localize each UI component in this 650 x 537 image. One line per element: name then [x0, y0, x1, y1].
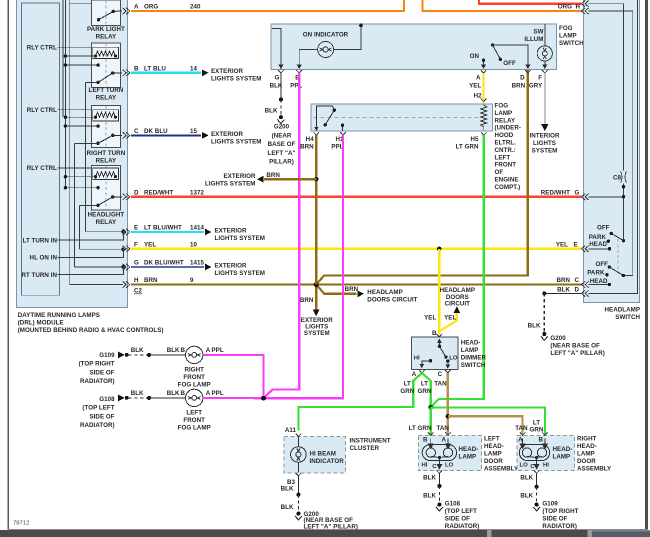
- svg-text:H2: H2: [474, 93, 483, 100]
- svg-text:GRN: GRN: [400, 388, 414, 395]
- wire F GRY down to interior lights: [544, 73, 546, 124]
- svg-text:YEL: YEL: [444, 314, 456, 321]
- svg-text:RADIATOR): RADIATOR): [80, 422, 115, 429]
- svg-text:CIRCUIT: CIRCUIT: [445, 300, 471, 307]
- svg-text:1414: 1414: [190, 225, 204, 232]
- DRL pin B connector chevrons: [123, 70, 127, 76]
- wire E LT BLU/WHT 1414: [131, 231, 204, 233]
- svg-text:F: F: [538, 75, 542, 82]
- svg-text:SIDE OF: SIDE OF: [445, 515, 470, 522]
- svg-text:(UNDER-: (UNDER-: [495, 125, 521, 132]
- svg-text:B: B: [539, 437, 544, 444]
- svg-text:10: 10: [190, 241, 197, 248]
- svg-text:HI: HI: [414, 355, 420, 361]
- wire A YEL down to fog relay H2: [482, 73, 484, 104]
- svg-text:BRN: BRN: [144, 277, 158, 284]
- svg-text:ASSEMBLY: ASSEMBLY: [484, 465, 519, 472]
- fog relay switch: [314, 106, 344, 131]
- svg-text:G200: G200: [550, 335, 566, 342]
- wire LT GRN junction to right headlamp B: [431, 407, 545, 436]
- svg-text:PPL: PPL: [290, 83, 302, 90]
- svg-text:TAN: TAN: [434, 381, 447, 388]
- right door pin mark C: [534, 470, 540, 473]
- svg-text:HEAD-: HEAD-: [577, 443, 597, 450]
- connector C8: [621, 172, 622, 183]
- wire B LT BLU 14: [131, 72, 201, 74]
- dimmer pin marks A C: [419, 370, 425, 373]
- svg-text:FRONT: FRONT: [183, 417, 205, 424]
- svg-text:H5: H5: [470, 136, 479, 143]
- svg-text:ILLUM: ILLUM: [524, 36, 543, 43]
- wire TAN junction to right headlamp A: [448, 416, 523, 436]
- pin F internal wire: [80, 248, 123, 250]
- right headlamp door assembly box: [517, 435, 575, 470]
- right door pin marks A B: [520, 432, 526, 435]
- wire B PPL down from fog switch: [264, 73, 300, 398]
- svg-text:(TOP RIGHT: (TOP RIGHT: [79, 361, 115, 368]
- svg-text:LAMP: LAMP: [459, 454, 477, 461]
- svg-text:FOG LAMP: FOG LAMP: [178, 382, 211, 389]
- svg-text:G: G: [134, 260, 139, 267]
- svg-text:BLK: BLK: [167, 390, 180, 397]
- svg-text:PARK: PARK: [589, 234, 607, 241]
- svg-text:CLUSTER: CLUSTER: [350, 445, 380, 452]
- svg-text:HI: HI: [543, 462, 549, 468]
- svg-text:CNTR.:: CNTR.:: [495, 147, 516, 154]
- svg-text:SIDE OF: SIDE OF: [89, 369, 114, 376]
- svg-text:BRN: BRN: [300, 144, 314, 151]
- svg-text:LEFT "A" PILLAR): LEFT "A" PILLAR): [550, 350, 604, 357]
- svg-text:ASSEMBLY: ASSEMBLY: [577, 465, 612, 472]
- svg-text:ORG: ORG: [558, 4, 572, 11]
- wire BRN down to exterior lights system: [315, 285, 317, 310]
- svg-text:LAMP: LAMP: [461, 347, 479, 354]
- internal bus wire v1: [62, 0, 64, 117]
- right turn coil feed wires: [65, 117, 98, 126]
- svg-text:15: 15: [190, 128, 197, 135]
- instrument cluster box: [284, 437, 346, 473]
- svg-text:OFF: OFF: [503, 60, 516, 67]
- arrow to exterior lights (B): [202, 69, 209, 76]
- ground G108 (left headlamp): [437, 503, 441, 507]
- svg-text:BRN: BRN: [266, 172, 280, 179]
- right turn relay coil: [93, 110, 119, 121]
- svg-text:G: G: [275, 75, 280, 82]
- svg-text:FRONT: FRONT: [495, 162, 517, 169]
- svg-text:HEADLAMP: HEADLAMP: [440, 287, 475, 294]
- svg-text:(NEAR BASE OF: (NEAR BASE OF: [550, 343, 600, 350]
- svg-text:B: B: [134, 65, 139, 72]
- svg-text:FOG: FOG: [559, 25, 573, 32]
- svg-text:(TOP RIGHT: (TOP RIGHT: [542, 508, 578, 515]
- dimmer pin mark B: [436, 334, 442, 337]
- internal line from RED top to switch1 pivot: [589, 0, 638, 293]
- cluster pin mark A11: [296, 434, 302, 437]
- svg-text:RELAY: RELAY: [96, 157, 117, 164]
- svg-text:9: 9: [190, 277, 194, 284]
- DRL pin C connector chevrons: [123, 132, 127, 138]
- hi beam indicator lamp: [291, 437, 307, 473]
- wire LT GRN right path from dimmer A: [422, 373, 431, 408]
- fog switch lever: [491, 43, 494, 46]
- wire sw illum to F pin: [544, 61, 546, 66]
- DRL inner connector box: [22, 3, 60, 295]
- svg-text:RELAY: RELAY: [495, 117, 516, 124]
- node on left fog lamp BLK: [147, 396, 151, 400]
- svg-text:C: C: [134, 128, 139, 135]
- svg-text:14: 14: [190, 65, 197, 72]
- left headlamp door assembly box: [419, 435, 482, 470]
- page bottom border: [8, 529, 649, 530]
- svg-text:HEAD-: HEAD-: [484, 443, 504, 450]
- svg-text:HEAD-: HEAD-: [553, 446, 573, 453]
- svg-text:LEFT TURN: LEFT TURN: [88, 87, 123, 94]
- svg-text:E: E: [134, 225, 138, 232]
- svg-text:ON: ON: [470, 53, 480, 60]
- svg-text:PPL: PPL: [212, 347, 224, 354]
- svg-text:RELAY: RELAY: [96, 33, 117, 40]
- svg-text:(TOP LEFT: (TOP LEFT: [82, 405, 114, 412]
- fog relay coil: [481, 104, 487, 130]
- svg-text:RT TURN IN: RT TURN IN: [21, 272, 57, 279]
- svg-text:C: C: [575, 277, 580, 284]
- pin marks fog switch: [278, 70, 547, 73]
- svg-text:DK BLU: DK BLU: [144, 128, 168, 135]
- bottom bar middle segment: [492, 530, 588, 537]
- wire from indicator to panel top: [334, 25, 361, 50]
- svg-text:DOOR: DOOR: [577, 458, 596, 465]
- svg-text:LT BLU/WHT: LT BLU/WHT: [144, 225, 182, 232]
- internal line BLK D up right side: [589, 0, 638, 293]
- relay K3 right turn relay box: [92, 106, 121, 148]
- svg-text:LAMP: LAMP: [495, 110, 513, 117]
- DRL pin A connector chevrons: [123, 8, 130, 288]
- svg-text:RLY CTRL: RLY CTRL: [27, 44, 57, 51]
- wire sw illum to panel top: [544, 24, 546, 46]
- svg-text:G109: G109: [99, 352, 115, 359]
- svg-text:H: H: [134, 277, 139, 284]
- svg-text:D: D: [575, 287, 580, 294]
- svg-text:RLY CTRL: RLY CTRL: [27, 107, 57, 114]
- DRL pin D connector chevrons: [123, 194, 127, 200]
- dimmer lever: [438, 345, 442, 349]
- svg-text:LO: LO: [449, 355, 458, 361]
- internal bus wire v2: [64, 0, 66, 188]
- wire H4 BRN down: [315, 135, 317, 284]
- relay K4 headlight relay box: [92, 166, 121, 211]
- bottom bar right segment: [592, 530, 650, 537]
- svg-text:OFF: OFF: [595, 261, 608, 268]
- node YEL junction on F wire: [437, 247, 441, 251]
- svg-text:YEL: YEL: [556, 241, 568, 248]
- svg-text:BLK: BLK: [423, 493, 436, 500]
- fog lamp switch panel: [271, 24, 557, 69]
- svg-text:1372: 1372: [190, 189, 204, 196]
- svg-text:HEADLIGHT: HEADLIGHT: [88, 212, 125, 219]
- svg-text:HEADLAMP: HEADLAMP: [367, 289, 402, 296]
- svg-text:(NEAR: (NEAR: [272, 132, 292, 139]
- relay K2 left turn relay box: [92, 43, 121, 87]
- svg-text:BLK: BLK: [423, 474, 436, 481]
- cluster pin mark B3: [296, 473, 302, 476]
- lamp right front fog lamp: [186, 346, 203, 363]
- svg-text:HI: HI: [422, 462, 428, 468]
- svg-text:INSTRUMENT: INSTRUMENT: [350, 438, 391, 445]
- ground G109 (right headlamp): [535, 503, 539, 507]
- svg-text:LEFT: LEFT: [484, 435, 500, 442]
- svg-text:SWITCH: SWITCH: [559, 40, 584, 47]
- svg-text:SYSTEM: SYSTEM: [532, 148, 558, 155]
- wire from B pin to indicator: [299, 50, 317, 70]
- svg-text:LEFT: LEFT: [186, 410, 202, 417]
- svg-text:RELAY: RELAY: [96, 95, 117, 102]
- left turn switch feed: [86, 81, 99, 83]
- wire BLK B left fog lamp: [149, 397, 186, 399]
- node BRN at y179: [314, 177, 318, 181]
- internal line BRN C to HEAD2: [589, 284, 610, 286]
- ground G200 (headlamp switch): [542, 332, 546, 336]
- left door pin marks B A: [428, 432, 434, 435]
- wire BRN branch to exterior lights arrow: [264, 178, 316, 180]
- svg-text:B: B: [423, 437, 428, 444]
- wire YEL down to dimmer B: [438, 249, 440, 334]
- svg-text:HEAD: HEAD: [590, 278, 608, 285]
- svg-text:OF: OF: [495, 169, 504, 176]
- park relay feed wire: [70, 3, 99, 20]
- svg-text:G: G: [575, 189, 580, 196]
- DRL pin G connector chevrons: [123, 264, 127, 270]
- headlight relay coil: [93, 168, 119, 179]
- svg-text:YEL: YEL: [424, 314, 436, 321]
- svg-text:(MOUNTED BEHIND RADIO & HVAC C: (MOUNTED BEHIND RADIO & HVAC CONTROLS): [18, 327, 164, 334]
- svg-text:RIGHT: RIGHT: [577, 435, 597, 442]
- svg-text:G108: G108: [99, 396, 115, 403]
- svg-text:(TOP LEFT: (TOP LEFT: [445, 508, 477, 515]
- svg-text:F: F: [134, 241, 138, 248]
- svg-text:EXTERIOR: EXTERIOR: [223, 173, 256, 180]
- fog lamp relay box: [311, 104, 492, 131]
- bottom bar left segment: [0, 530, 487, 537]
- svg-text:LO: LO: [445, 462, 454, 468]
- svg-text:PARK: PARK: [587, 269, 605, 276]
- svg-text:PPL: PPL: [331, 144, 343, 151]
- wire BRN fork upper to fog lamp switch D: [316, 70, 528, 285]
- fog relay dashed centerline: [314, 116, 480, 118]
- svg-text:GRY: GRY: [529, 83, 543, 90]
- svg-text:RADIATOR): RADIATOR): [542, 523, 577, 530]
- svg-text:BLK: BLK: [528, 323, 541, 330]
- svg-text:A: A: [134, 4, 139, 11]
- svg-text:LT BLU: LT BLU: [144, 65, 166, 72]
- svg-text:G200: G200: [274, 124, 290, 131]
- svg-text:HEAD-: HEAD-: [461, 339, 481, 346]
- svg-text:LT: LT: [404, 381, 411, 388]
- svg-text:C8: C8: [613, 174, 622, 181]
- wire from G pin up and left: [272, 28, 281, 69]
- wire LT GRN left path from dimmer A: [298, 373, 422, 430]
- svg-text:A11: A11: [285, 427, 297, 434]
- right turn switch feed: [75, 142, 98, 144]
- svg-text:ENGINE: ENGINE: [495, 177, 519, 184]
- bottom bar separator 2: [588, 530, 593, 537]
- svg-text:B: B: [432, 330, 437, 337]
- svg-text:GRN: GRN: [418, 388, 432, 395]
- svg-text:D: D: [134, 189, 139, 196]
- svg-text:FRONT: FRONT: [183, 374, 205, 381]
- svg-text:C: C: [438, 371, 443, 378]
- svg-text:DIMMER: DIMMER: [461, 354, 487, 361]
- wire BRN stub to headlamp doors circuit: [316, 285, 356, 294]
- pin H internal wire: [70, 284, 123, 286]
- svg-text:EXTERIOR: EXTERIOR: [215, 262, 248, 269]
- left turn relay coil: [93, 47, 119, 58]
- svg-text:B: B: [181, 390, 186, 397]
- svg-text:FOG: FOG: [495, 103, 509, 110]
- wire G DK BLU/WHT 1415: [131, 266, 204, 268]
- svg-text:H4: H4: [306, 136, 315, 143]
- wire YEL branch to headlamp doors circuit: [441, 312, 457, 331]
- svg-text:BRN: BRN: [512, 83, 526, 90]
- svg-text:FOG LAMP: FOG LAMP: [178, 425, 211, 432]
- svg-text:YEL: YEL: [469, 83, 481, 90]
- arrow to exterior lights (E): [205, 229, 212, 236]
- svg-text:BRN: BRN: [345, 286, 359, 293]
- DRL pin H connector chevrons: [123, 281, 127, 287]
- headlight relay switch: [96, 195, 122, 207]
- node LT GRN junction: [428, 405, 433, 410]
- svg-text:INDICATOR: INDICATOR: [310, 458, 345, 465]
- right headlamp symbol: [519, 439, 549, 469]
- arrow to exterior lights (G): [205, 264, 212, 271]
- arrowheads at G and B pin wires: [278, 65, 283, 70]
- wire C DK BLU 15: [131, 134, 201, 136]
- dimmer internal B arrow up: [438, 342, 440, 347]
- svg-text:LIGHTS: LIGHTS: [533, 140, 556, 147]
- headlamp dimmer switch box: [412, 337, 458, 369]
- svg-text:HL ON IN: HL ON IN: [30, 255, 58, 262]
- svg-text:RIGHT TURN: RIGHT TURN: [87, 150, 126, 157]
- wire H BRN 9: [131, 283, 316, 285]
- svg-text:RELAY: RELAY: [96, 219, 117, 226]
- svg-text:OFF: OFF: [597, 225, 610, 232]
- wire H1 PPL down: [264, 135, 344, 398]
- svg-text:BLK: BLK: [281, 486, 294, 493]
- DRL pin E connector chevrons: [123, 229, 127, 235]
- node on right fog lamp BLK: [147, 353, 151, 357]
- svg-text:BLK: BLK: [520, 493, 533, 500]
- svg-text:BASE OF: BASE OF: [268, 141, 296, 148]
- svg-text:EXTERIOR: EXTERIOR: [211, 68, 244, 75]
- left door pin mark C: [437, 470, 443, 473]
- lamp left front fog lamp: [186, 389, 203, 406]
- svg-text:SWITCH: SWITCH: [615, 314, 640, 321]
- svg-text:1415: 1415: [190, 260, 204, 267]
- wire H5 LT GRN down: [431, 135, 484, 407]
- svg-text:PPL: PPL: [212, 390, 224, 397]
- wire RED/WHT top feed: [479, 0, 582, 4]
- svg-text:LT: LT: [421, 381, 428, 388]
- svg-text:RADIATOR): RADIATOR): [445, 523, 480, 530]
- svg-text:INTERIOR: INTERIOR: [530, 133, 560, 140]
- pin G internal wire: [75, 266, 123, 268]
- svg-text:DOORS CIRCUIT: DOORS CIRCUIT: [367, 296, 417, 303]
- node on panel top edge: [359, 24, 363, 28]
- fog relay pin marks: [314, 99, 487, 136]
- wire TAN from dimmer C: [447, 373, 449, 441]
- svg-text:DAYTIME RUNNING LAMPS: DAYTIME RUNNING LAMPS: [18, 312, 100, 319]
- svg-text:A: A: [206, 390, 211, 397]
- svg-text:PARK LIGHT: PARK LIGHT: [87, 26, 125, 33]
- svg-text:RIGHT: RIGHT: [184, 367, 204, 374]
- svg-text:H: H: [576, 4, 581, 11]
- bottom bar separator 1: [487, 530, 492, 537]
- svg-text:LAMP: LAMP: [577, 450, 595, 457]
- svg-text:SW: SW: [533, 29, 543, 36]
- svg-text:ELTRL.: ELTRL.: [495, 140, 517, 147]
- svg-text:RED/WHT: RED/WHT: [144, 189, 173, 196]
- switch mechanical link dashed: [617, 239, 619, 274]
- left turn relay switch: [96, 71, 122, 84]
- svg-text:BLK: BLK: [265, 108, 278, 115]
- svg-text:A: A: [206, 347, 211, 354]
- svg-text:(DRL) MODULE: (DRL) MODULE: [18, 320, 64, 327]
- svg-text:D: D: [520, 75, 525, 82]
- left turn coil feed wires: [65, 56, 98, 65]
- svg-text:DK BLU/WHT: DK BLU/WHT: [144, 260, 184, 267]
- svg-text:SIDE OF: SIDE OF: [542, 515, 567, 522]
- wire lever to D pin: [493, 45, 528, 66]
- headlight switch feed: [80, 204, 99, 206]
- svg-text:LAMP: LAMP: [484, 450, 502, 457]
- on indicator lamp: [318, 42, 334, 58]
- internal bus wire v3: [69, 0, 71, 285]
- svg-text:BRN: BRN: [300, 297, 314, 304]
- svg-text:GRN: GRN: [530, 426, 544, 433]
- svg-text:COMPT.): COMPT.): [495, 184, 521, 191]
- wire BRN lower run to headlamp switch C: [316, 283, 581, 285]
- svg-text:LIGHTS SYSTEM: LIGHTS SYSTEM: [205, 180, 256, 187]
- svg-text:LEFT "A": LEFT "A": [268, 150, 296, 157]
- svg-text:78712: 78712: [13, 521, 29, 527]
- svg-text:E: E: [574, 241, 578, 248]
- svg-text:HEAD-: HEAD-: [459, 446, 479, 453]
- dimmer LO contact to C pin: [446, 359, 449, 362]
- node PPL junction: [261, 396, 266, 401]
- svg-text:C: C: [432, 464, 437, 470]
- svg-text:BLK: BLK: [520, 474, 533, 481]
- svg-text:G108: G108: [445, 501, 461, 508]
- svg-text:SWITCH: SWITCH: [461, 362, 486, 369]
- svg-text:BLK: BLK: [167, 347, 180, 354]
- svg-text:LIGHTS SYSTEM: LIGHTS SYSTEM: [215, 270, 266, 277]
- svg-text:G109: G109: [542, 501, 558, 508]
- svg-text:TAN: TAN: [515, 425, 528, 432]
- svg-text:HEADLAMP: HEADLAMP: [605, 306, 640, 313]
- svg-text:RADIATOR): RADIATOR): [80, 378, 115, 385]
- svg-text:LIGHTS SYSTEM: LIGHTS SYSTEM: [211, 138, 262, 145]
- svg-text:HEAD: HEAD: [589, 241, 607, 248]
- arrow to exterior lights (C): [202, 132, 209, 139]
- svg-text:SIDE OF: SIDE OF: [89, 413, 114, 420]
- left headlamp symbol: [422, 439, 456, 469]
- svg-text:BLK: BLK: [131, 390, 144, 397]
- wire BLK dashed to G109: [129, 354, 150, 356]
- svg-text:SYSTEM: SYSTEM: [304, 330, 330, 337]
- ground G200 (instrument cluster): [296, 512, 300, 516]
- relay K1 park light relay box: [92, 0, 121, 25]
- svg-text:A: A: [476, 75, 481, 82]
- svg-text:TAN: TAN: [437, 425, 450, 432]
